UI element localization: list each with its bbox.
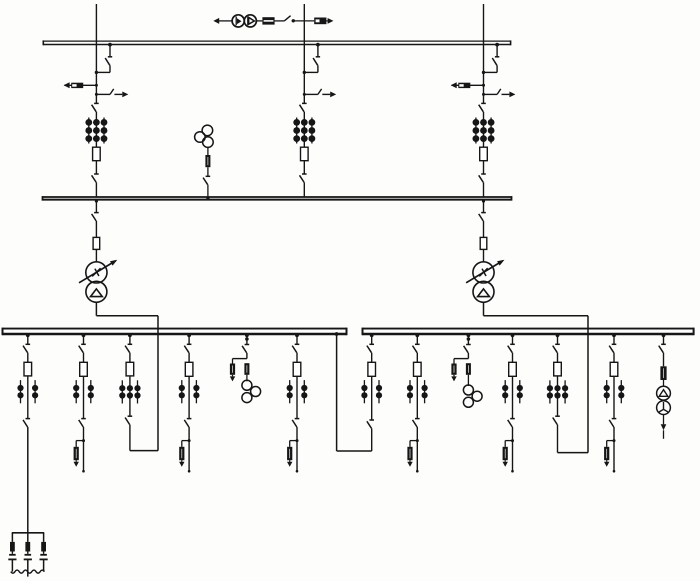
capacitor feeder F1: current transformers bbox=[17, 380, 38, 403]
cable feeder F4: bus junction + disconnect switch bbox=[184, 333, 191, 352]
bus tie wire (W3 sec1 to sec2) bbox=[335, 332, 372, 451]
feeder A main line (upper section) bbox=[95, 4, 97, 197]
disconnect switch (A upper) bbox=[92, 103, 99, 111]
bus tie feeder: lower disconnect switch bbox=[367, 420, 374, 428]
cable feeder F12: wire to cable bbox=[613, 427, 616, 473]
cable feeder F6: wire to cable bbox=[296, 427, 299, 473]
wire bbox=[483, 249, 485, 261]
fuse (T1 transformer) bbox=[93, 237, 100, 249]
VT feeder FV1: fuse (dark) bbox=[244, 363, 249, 375]
metering transformer U1 (circle with arrow) bbox=[232, 15, 244, 27]
bus tie feeder: wire bbox=[371, 376, 373, 420]
wire bbox=[207, 167, 209, 176]
node (junction dot) bbox=[292, 19, 295, 22]
line trap box (filled with stripe) bbox=[262, 17, 274, 24]
cable feeder F8: lower disconnect switch bbox=[413, 419, 420, 427]
cable feeder F6: current transformers bbox=[287, 380, 308, 403]
wire (transformer T2 secondary to LV feeder) bbox=[484, 302, 589, 452]
bus tie feeder: breaker/fuse bbox=[368, 362, 376, 376]
cable feeder F12: wire bbox=[613, 353, 615, 363]
cable feeder F10: wire bbox=[512, 353, 514, 363]
incoming feeder FT2: lower disconnect switch bbox=[553, 416, 560, 424]
power transformer T2 (two windings, on-load tap changer) bbox=[466, 260, 504, 303]
cable feeder F4: lower disconnect switch bbox=[184, 419, 191, 427]
capacitor bank header wire bbox=[12, 532, 44, 534]
current transformers 3x3 (C) bbox=[473, 118, 495, 144]
cable feeder F8: surge arrester branch bbox=[407, 439, 419, 467]
wire bbox=[275, 20, 285, 22]
incoming feeder FT1: current transformers 3x2 bbox=[119, 380, 140, 403]
cable feeder F2: wire bbox=[83, 353, 85, 363]
wire bbox=[217, 20, 233, 22]
disconnect switch (A above W2) bbox=[92, 174, 99, 182]
station transformer feeder: fuse (dark) bbox=[660, 366, 666, 380]
line arrow right (top metering tap) bbox=[326, 18, 333, 24]
incoming feeder FT2: wire bbox=[557, 376, 559, 416]
cable feeder F12: wire bbox=[613, 376, 615, 418]
cable feeder F6: lower disconnect switch bbox=[292, 419, 299, 427]
wire (transformer T1 secondary to LV feeder) bbox=[96, 302, 158, 450]
capacitor bank branch 2: capacitor C2 bbox=[24, 552, 32, 572]
feeder B main line (upper section) bbox=[303, 4, 305, 197]
fuse (T2 transformer) bbox=[480, 237, 487, 249]
voltage transformer cluster FV2 bbox=[463, 385, 482, 407]
cable feeder F2: bus junction + disconnect switch bbox=[79, 333, 86, 352]
line trap box 2 (filled) bbox=[314, 18, 326, 25]
disconnect switch (C upper) bbox=[479, 103, 486, 111]
VT feeder FV2: wire + branch bbox=[454, 353, 468, 364]
voltage transformer cluster FV1 bbox=[242, 380, 261, 402]
cable feeder F4: current transformers bbox=[179, 380, 200, 403]
cable feeder F6: bus junction + disconnect switch bbox=[292, 333, 299, 352]
capacitor bank branch 3: fuse bbox=[41, 533, 46, 552]
station transformer feeder: bus junction + disconnect switch bbox=[659, 333, 666, 352]
capacitor feeder F1: lower disconnect switch bbox=[23, 419, 30, 427]
tap switch with arrow right (C) bbox=[482, 89, 515, 97]
cable feeder F10: bus junction + disconnect switch bbox=[508, 333, 515, 352]
capacitor bank branch 2: fuse bbox=[25, 533, 30, 552]
wire bbox=[292, 20, 315, 22]
busbar W2 (MV bus, double line) bbox=[43, 196, 512, 201]
wire bbox=[95, 221, 97, 237]
bypass disconnect QS (B) with jumper bbox=[303, 43, 321, 74]
cable feeder F4: wire bbox=[188, 353, 190, 363]
incoming feeder FT1: wire bbox=[129, 376, 131, 416]
capacitor feeder F1: bus junction + disconnect switch bbox=[23, 333, 30, 352]
cable feeder F8: wire bbox=[416, 376, 418, 418]
disconnect switch (C above W2) bbox=[479, 174, 486, 182]
cable feeder F4: wire to cable bbox=[188, 427, 191, 473]
tap switch with arrow right (A) bbox=[95, 89, 128, 97]
capacitor bank branch 3: capacitor C3 bbox=[40, 552, 48, 572]
incoming feeder FT1: wire down bbox=[129, 425, 131, 451]
breaker/fuse (B) bbox=[301, 147, 309, 161]
disconnect switch (T2 below W2) bbox=[479, 199, 486, 221]
disconnect switch (W2 VT) bbox=[203, 176, 210, 184]
bus tie feeder: wire bbox=[371, 353, 373, 363]
cable feeder F4: wire bbox=[188, 376, 190, 418]
incoming feeder FT1: breaker/fuse bbox=[126, 362, 134, 376]
cable feeder F12: current transformers bbox=[604, 380, 625, 403]
VT feeder FV1: wire + branch bbox=[233, 353, 247, 364]
capacitor feeder F1: wire bbox=[27, 376, 29, 419]
cable feeder F6: wire bbox=[296, 376, 298, 418]
breaker/fuse (A) bbox=[93, 147, 101, 161]
station transformer feeder: wire bbox=[663, 353, 665, 367]
incoming feeder FT2: bus junction + disconnect switch bbox=[553, 333, 560, 352]
tap switch with arrow right (B) bbox=[303, 89, 336, 97]
cable feeder F2: lower disconnect switch bbox=[79, 419, 86, 427]
wire bbox=[206, 185, 209, 200]
station transformer feeder: wire bbox=[663, 380, 665, 387]
cable feeder F8: bus junction + disconnect switch bbox=[413, 333, 420, 352]
cable feeder F12: bus junction + disconnect switch bbox=[609, 333, 616, 352]
capacitor feeder F1: breaker/fuse bbox=[24, 362, 32, 376]
line arrow left (top metering tap) bbox=[213, 18, 219, 24]
incoming feeder FT1: bus junction + disconnect switch bbox=[125, 333, 132, 352]
VT feeder FV1: wire bbox=[246, 375, 248, 382]
bus tie feeder: disconnect switch (top) bbox=[367, 333, 374, 352]
current transformers 3x3 (B) bbox=[293, 118, 315, 144]
incoming feeder FT1: wire bbox=[129, 353, 131, 363]
line trap with arrow to line (A) bbox=[64, 82, 98, 88]
incoming feeder FT2: breaker/fuse bbox=[554, 362, 562, 376]
wire bbox=[483, 221, 485, 237]
disconnect switch (B above W2) bbox=[300, 174, 307, 182]
bus tie feeder: wire down to tie bbox=[371, 428, 373, 451]
VT feeder FV2: wire bbox=[467, 375, 469, 386]
cable feeder F10: current transformers bbox=[502, 380, 523, 403]
cable feeder F8: wire to cable bbox=[416, 427, 419, 473]
cable feeder F12: surge arrester branch bbox=[604, 439, 616, 467]
bus tie feeder: current transformers bbox=[361, 380, 382, 403]
incoming feeder FT2: current transformers 3x2 bbox=[547, 380, 568, 403]
cable feeder F6: wire bbox=[296, 353, 298, 363]
line trap with arrow to line (C) bbox=[451, 82, 485, 88]
VT feeder FV1: surge arrester bbox=[230, 364, 235, 382]
incoming feeder FT2: wire down bbox=[557, 425, 559, 453]
cable feeder F6: surge arrester branch bbox=[287, 439, 299, 467]
incoming feeder FT2: wire bbox=[557, 353, 559, 363]
cable feeder F12: lower disconnect switch bbox=[609, 419, 616, 427]
power transformer T1 (two windings, on-load tap changer) bbox=[79, 260, 117, 303]
station transformer feeder: outgoing arrow bbox=[661, 415, 667, 439]
VT feeder FV1: bus junction + disconnect switch bbox=[242, 333, 249, 353]
wire bbox=[95, 249, 97, 261]
breaker/fuse (C) bbox=[480, 147, 488, 161]
cable feeder F6: breaker/fuse bbox=[293, 362, 301, 376]
VT feeder FV2: bus junction + disconnect switch bbox=[464, 333, 471, 353]
cable feeder F8: wire bbox=[416, 353, 418, 363]
capacitor bank neutral (wavy link) bbox=[11, 570, 45, 577]
disconnect switch blade (top tap) bbox=[284, 16, 290, 21]
cable feeder F8: current transformers bbox=[407, 380, 428, 403]
cable feeder F4: surge arrester branch bbox=[179, 439, 191, 467]
wire bbox=[256, 20, 262, 22]
capacitor feeder F1: long wire down bbox=[27, 427, 29, 533]
capacitor bank branch 1: fuse bbox=[10, 533, 15, 552]
cable feeder F2: wire bbox=[83, 376, 85, 418]
disconnect switch (B upper) bbox=[300, 103, 307, 111]
cable feeder F10: surge arrester branch bbox=[503, 439, 515, 467]
capacitor feeder F1: wire bbox=[27, 353, 29, 363]
capacitor bank branch 1: capacitor C1 bbox=[8, 552, 16, 572]
cable feeder F10: lower disconnect switch bbox=[508, 419, 515, 427]
cable feeder F8: breaker/fuse bbox=[414, 362, 422, 376]
voltage transformer cluster (bus W2) bbox=[195, 125, 214, 147]
cable feeder F2: current transformers bbox=[73, 380, 94, 403]
bypass disconnect QS (A) with jumper bbox=[95, 43, 112, 74]
cable feeder F2: wire to cable bbox=[82, 427, 85, 473]
cable feeder F2: surge arrester branch bbox=[74, 439, 86, 467]
cable feeder F4: breaker/fuse bbox=[185, 362, 193, 376]
metering transformer U2 (circle with triangle) bbox=[244, 15, 256, 27]
cable feeder F10: wire bbox=[512, 376, 514, 418]
busbar W3 section 1 (LV bus left) bbox=[3, 328, 347, 336]
busbar W3 section 2 (LV bus right) bbox=[363, 328, 694, 336]
cable feeder F10: breaker/fuse bbox=[509, 362, 517, 376]
station service transformer T3 (delta/wye) bbox=[657, 386, 671, 414]
cable feeder F10: wire to cable bbox=[511, 427, 514, 473]
current transformers 3x3 (A) bbox=[85, 118, 107, 144]
VT feeder FV2: surge arrester bbox=[451, 364, 456, 382]
VT fuse (dark box) bbox=[205, 147, 210, 167]
busbar W1 (HV bus, double line) bbox=[43, 40, 510, 45]
cable feeder F2: breaker/fuse bbox=[80, 362, 88, 376]
VT feeder FV2: fuse (dark) bbox=[466, 363, 471, 375]
feeder C main line (upper section) bbox=[483, 4, 485, 197]
incoming feeder FT1: lower disconnect switch bbox=[125, 416, 132, 424]
bypass disconnect QS (C) with jumper bbox=[482, 43, 500, 74]
disconnect switch (T1 below W2) bbox=[92, 199, 99, 221]
cable feeder F12: breaker/fuse bbox=[610, 362, 618, 376]
